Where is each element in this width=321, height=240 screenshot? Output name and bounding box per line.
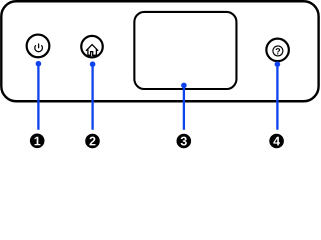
power button B1 (27, 35, 50, 58)
power icon (35, 44, 43, 52)
LCD screen (134, 12, 236, 89)
callout 2 line (91, 64, 93, 130)
label 3 (177, 134, 192, 149)
home icon (86, 45, 98, 56)
label 2 (85, 134, 100, 149)
control panel outline (1, 1, 318, 101)
label 4 (269, 134, 284, 149)
help icon: circled question mark (273, 46, 283, 56)
callout 4 line (276, 64, 278, 130)
help button B3 (266, 39, 289, 62)
callout 1 line (36, 61, 281, 130)
home button B2 (81, 36, 103, 58)
label 1 (30, 134, 45, 149)
callout 3 line (183, 85, 185, 129)
